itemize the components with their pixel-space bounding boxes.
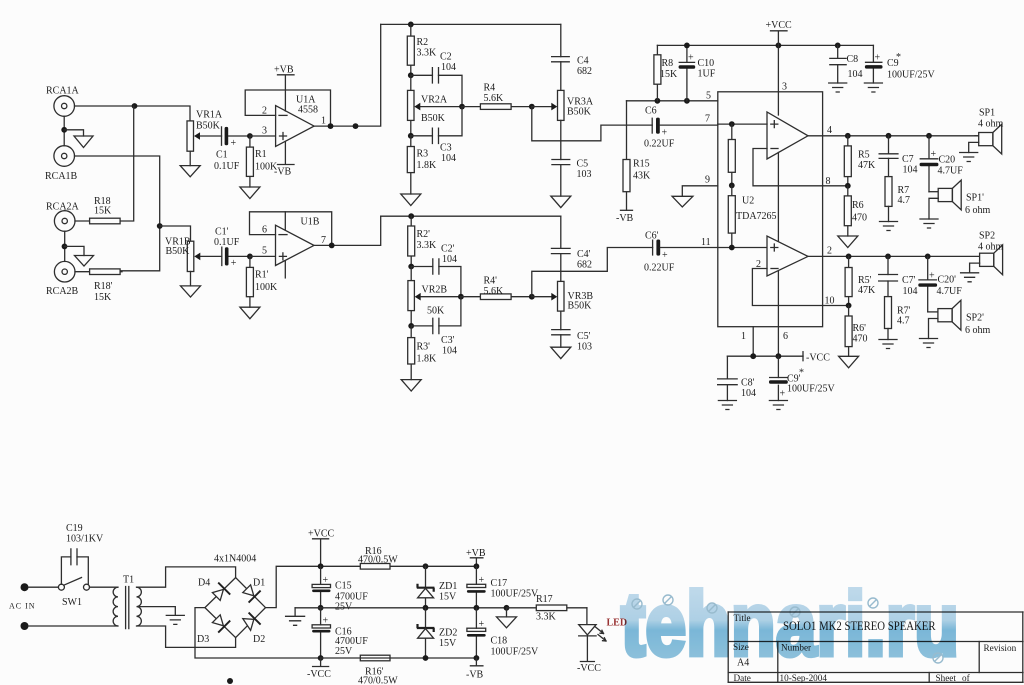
supply +VCC PSU [308, 529, 335, 567]
connector RCA2A [46, 202, 80, 232]
wire SP1' return [929, 198, 938, 219]
svg-text:R8: R8 [662, 58, 674, 69]
speaker SP2 [978, 231, 1004, 275]
svg-text:R3': R3' [417, 342, 431, 353]
speaker SP2' [938, 300, 991, 336]
svg-text:C8: C8 [847, 54, 859, 65]
svg-text:1.8K: 1.8K [417, 354, 438, 365]
node C3 top [408, 133, 414, 139]
svg-text:4.7: 4.7 [897, 316, 910, 327]
svg-text:5.6K: 5.6K [484, 93, 505, 104]
node -VCC C16 [318, 655, 324, 661]
svg-text:1: 1 [741, 331, 746, 342]
node pin10 R6' [846, 303, 852, 309]
supply -VCC PSU [307, 658, 331, 680]
svg-text:SP2': SP2' [966, 313, 984, 324]
svg-text:C1: C1 [216, 150, 228, 161]
ground R7 [880, 222, 898, 231]
ground C8 [829, 83, 847, 92]
svg-text:AC IN: AC IN [9, 602, 36, 611]
op-amp U2A [767, 112, 808, 159]
supply -VB PSU [466, 658, 484, 681]
svg-text:4558: 4558 [298, 105, 318, 116]
wire shield B to ground [65, 246, 85, 255]
svg-text:6 ohm: 6 ohm [965, 325, 991, 336]
capacitor C18 [467, 608, 539, 658]
svg-text:Revision: Revision [984, 643, 1017, 653]
svg-text:RCA2A: RCA2A [46, 202, 80, 213]
svg-text:tehnari.ru: tehnari.ru [621, 575, 959, 675]
potentiometer VR2A [408, 75, 463, 136]
svg-text:100UF/25V: 100UF/25V [491, 647, 540, 658]
ground R3' [401, 380, 421, 391]
svg-text:-VB: -VB [616, 213, 634, 224]
svg-text:4 ohm: 4 ohm [978, 242, 1004, 253]
op-amp U1B [276, 217, 320, 266]
node mid C16 [318, 605, 324, 611]
svg-text:3.3K: 3.3K [417, 48, 438, 59]
node +VB rail ZD1 [423, 563, 429, 569]
node +VCC C15 [318, 563, 324, 569]
svg-text:+: + [662, 250, 668, 261]
IC U2 TDA7265 box [718, 92, 823, 327]
resistor R4 [462, 83, 532, 110]
wire +VCC rail top [657, 44, 873, 46]
svg-text:SP2: SP2 [979, 231, 995, 242]
resistor R5' [845, 256, 876, 305]
potentiometer VR1A [187, 110, 223, 166]
LED [579, 608, 627, 641]
watermark tehnari.ru [621, 575, 959, 675]
svg-text:R18': R18' [94, 281, 113, 292]
node rail B R2' [408, 213, 414, 219]
svg-text:100UF/25V: 100UF/25V [787, 384, 836, 395]
node shield B [62, 244, 68, 250]
capacitor C8' [717, 356, 756, 400]
wire RCA2A shield to RCA2B shield [64, 231, 66, 261]
svg-text:R1: R1 [255, 149, 267, 160]
resistor internal lower [728, 185, 735, 247]
ground R3 [401, 194, 421, 206]
node pin8 R6 [845, 183, 851, 189]
resistor R7 [885, 177, 910, 222]
svg-text:R3: R3 [417, 149, 429, 160]
node pin4 R5 [845, 133, 851, 139]
node input B [157, 223, 163, 229]
svg-text:+VCC: +VCC [308, 529, 335, 540]
svg-text:104: 104 [903, 165, 918, 176]
svg-text:1UF: 1UF [698, 69, 716, 80]
node feedback A [328, 123, 334, 129]
node rail VCC stem [776, 43, 782, 49]
svg-text:4.7UF: 4.7UF [937, 286, 963, 297]
svg-text:*: * [799, 368, 804, 379]
svg-text:R2': R2' [417, 229, 431, 240]
svg-text:104: 104 [441, 62, 456, 73]
ground R6 [838, 236, 858, 248]
svg-text:15K: 15K [660, 69, 678, 80]
node pin11 [729, 245, 735, 251]
resistor R17 [507, 594, 587, 623]
svg-text:100K: 100K [255, 282, 278, 293]
svg-text:C5': C5' [577, 331, 591, 342]
node -VB rail ZD2 [423, 655, 429, 661]
svg-text:+: + [479, 575, 485, 586]
svg-text:B50K: B50K [567, 107, 592, 118]
connector RCA1B [45, 146, 78, 182]
svg-text:C2: C2 [440, 52, 452, 63]
svg-text:5.6K: 5.6K [484, 286, 505, 297]
resistor R15 [623, 101, 651, 211]
pin 7 wire [705, 114, 767, 125]
svg-text:682: 682 [577, 66, 592, 77]
svg-text:4x1N4004: 4x1N4004 [214, 554, 256, 565]
wire AC top [29, 586, 59, 588]
node -VB C18 [474, 655, 480, 661]
svg-text:VR1A: VR1A [196, 110, 223, 121]
svg-text:RCA1B: RCA1B [45, 171, 78, 182]
wire node to U1A pin3 [250, 135, 276, 137]
node C3' top [408, 323, 414, 329]
svg-text:0.22UF: 0.22UF [644, 139, 675, 150]
terminal AC live [21, 583, 29, 591]
svg-text:C4: C4 [577, 56, 589, 67]
svg-text:470: 470 [853, 334, 868, 345]
ground C5 [551, 196, 571, 208]
svg-text:R4: R4 [484, 83, 496, 94]
capacitor C7' [878, 256, 918, 297]
svg-text:4 ohm: 4 ohm [978, 119, 1004, 130]
wire secondary top to bridge [137, 567, 236, 587]
svg-text:B50K: B50K [196, 121, 221, 132]
svg-text:3: 3 [782, 82, 787, 93]
svg-text:VR2B: VR2B [422, 285, 448, 296]
svg-text:0.1UF: 0.1UF [214, 237, 240, 248]
resistor R1' [246, 256, 278, 307]
wire C20' to SP2' [928, 311, 938, 313]
svg-text:-VCC: -VCC [806, 353, 830, 364]
capacitor C4 [551, 24, 592, 90]
resistor R1 [246, 136, 278, 187]
svg-text:+: + [323, 575, 329, 586]
svg-text:D2: D2 [253, 634, 265, 645]
svg-text:+: + [931, 149, 937, 160]
ground center tap [166, 615, 184, 624]
supply -VCC IC [803, 352, 830, 364]
wire R4' to VR3B wiper [532, 296, 552, 298]
resistor R16 [358, 546, 398, 569]
svg-text:SP1': SP1' [966, 193, 984, 204]
resistor R7' [885, 297, 911, 340]
node output B [329, 243, 335, 249]
wire pin8 ext [823, 185, 848, 187]
svg-text:6: 6 [783, 331, 788, 342]
svg-text:R4': R4' [484, 276, 498, 287]
node rail A R2 [408, 22, 414, 28]
wire pin10 ext [823, 305, 849, 307]
svg-text:RCA1A: RCA1A [46, 86, 80, 97]
pin 1 stem [741, 327, 753, 357]
supply stub bottom U1B [284, 261, 286, 278]
op-amp U2B [756, 236, 808, 276]
ground input A [74, 136, 93, 148]
svg-text:C19: C19 [66, 523, 83, 534]
ground pin9 [672, 196, 693, 207]
transformer T1 [113, 575, 141, 629]
node C10 bottom [684, 98, 690, 104]
svg-text:ZD1: ZD1 [439, 581, 457, 592]
ground VR1B [181, 286, 201, 297]
wire R4' node to C6' (jog) [532, 248, 653, 297]
resistor R6 [844, 186, 867, 236]
svg-text:R6: R6 [852, 200, 864, 211]
supply stub top U1B [284, 212, 286, 230]
svg-text:6: 6 [262, 225, 267, 236]
svg-text:1.8K: 1.8K [417, 160, 438, 171]
svg-text:R17: R17 [536, 594, 553, 605]
svg-text:43K: 43K [633, 171, 651, 182]
wire U1A feedback loop [245, 90, 330, 126]
resistor R2 [407, 24, 437, 75]
svg-text:7: 7 [321, 235, 326, 246]
resistor R4' [461, 276, 532, 300]
svg-text:ZD2: ZD2 [439, 628, 457, 639]
svg-text:104: 104 [848, 69, 863, 80]
svg-text:of: of [962, 673, 971, 683]
wire R4 node to C6 (jog) [532, 107, 652, 141]
wire mid ground rail [295, 607, 506, 609]
wire bias to pin5 [627, 100, 718, 102]
capacitor C20' [918, 256, 962, 312]
svg-text:SW1: SW1 [62, 597, 82, 608]
wire SP2' return [929, 319, 938, 339]
node pin5 B [247, 254, 253, 260]
node rail C10 [684, 43, 690, 49]
svg-text:5: 5 [706, 91, 711, 102]
switch SW1 [58, 578, 89, 609]
svg-text:TDA7265: TDA7265 [736, 211, 777, 222]
node rail C8 [835, 43, 841, 49]
svg-text:-VCC: -VCC [307, 669, 331, 680]
potentiometer VR3A [551, 90, 594, 120]
resistor R2' [408, 216, 437, 266]
zener ZD2 [417, 608, 458, 658]
ground C9 [864, 83, 882, 92]
capacitor C3' [411, 297, 461, 357]
svg-text:682: 682 [577, 260, 592, 271]
svg-text:+: + [875, 52, 881, 63]
svg-text:4.7UF: 4.7UF [938, 166, 964, 177]
supply -VB R15 [616, 210, 634, 224]
pin 9 wire [682, 175, 718, 197]
capacitor C2 [411, 52, 462, 107]
svg-text:100UF/25V: 100UF/25V [491, 589, 540, 600]
resistor R5 [844, 136, 876, 186]
svg-text:R1': R1' [255, 270, 269, 281]
capacitor C16 [312, 608, 368, 658]
svg-text:47K: 47K [858, 285, 876, 296]
capacitor C6' [644, 231, 718, 274]
potentiometer VR1B [165, 237, 222, 286]
wire node to U1B pin5 [250, 255, 276, 257]
svg-text:7: 7 [705, 114, 710, 125]
svg-text:+: + [231, 258, 237, 269]
wire secondary bottom to bridge [137, 626, 236, 647]
svg-text:R15: R15 [633, 159, 650, 170]
speaker SP1 [975, 108, 1004, 155]
svg-text:2: 2 [827, 246, 832, 257]
svg-text:0.22UF: 0.22UF [644, 263, 675, 274]
resistor R18' [75, 269, 122, 303]
resistor R16' [358, 655, 398, 685]
svg-text:T1: T1 [123, 575, 134, 586]
capacitor C9' [769, 356, 836, 400]
ground R6' [839, 356, 859, 368]
svg-text:103: 103 [577, 342, 592, 353]
svg-text:C2': C2' [441, 244, 455, 255]
svg-text:6 ohm: 6 ohm [965, 205, 991, 216]
node R8 bottom [655, 98, 661, 104]
svg-text:0.1UF: 0.1UF [214, 161, 240, 172]
ground input B [75, 256, 94, 267]
svg-text:104: 104 [442, 346, 457, 357]
svg-text:C5: C5 [577, 159, 589, 170]
node R4' out [529, 294, 535, 300]
wire U1B output to rail B [314, 216, 381, 245]
node shield A [61, 127, 67, 133]
capacitor C15 [312, 566, 368, 612]
capacitor C6 [644, 106, 718, 150]
node pin4 C20 [926, 133, 932, 139]
title block frame [728, 612, 1023, 682]
svg-text:B50K: B50K [568, 301, 593, 312]
node R2 bottom [408, 72, 414, 78]
node mid C18 [474, 605, 480, 611]
svg-text:C7': C7' [902, 275, 916, 286]
wire RCA1A to VR1A [75, 106, 191, 121]
wire SP2 return [970, 263, 980, 273]
potentiometer VR3B [551, 281, 593, 311]
wire U2A feedback to pin 8 [753, 149, 823, 186]
capacitor C9 [865, 45, 936, 83]
resistor R18 [75, 106, 134, 224]
svg-text:C7: C7 [902, 154, 914, 165]
svg-text:1: 1 [321, 116, 326, 127]
svg-text:C3: C3 [440, 143, 452, 154]
svg-text:B50K: B50K [421, 113, 446, 124]
wire bridge positive to +VCC rail [266, 566, 477, 607]
connector RCA2B [46, 261, 79, 297]
diode D3 [197, 615, 230, 645]
capacitor C20 [920, 136, 964, 192]
node pin1 [750, 353, 756, 359]
svg-text:U2: U2 [742, 196, 754, 207]
stray dot bottom [227, 678, 233, 684]
svg-text:104: 104 [741, 388, 756, 399]
svg-text:SP1: SP1 [979, 108, 995, 119]
ground C9' [769, 401, 787, 410]
svg-text:C18: C18 [491, 636, 508, 647]
ground mid rail right [506, 608, 508, 617]
svg-text:-VB: -VB [466, 670, 484, 681]
svg-text:47K: 47K [858, 160, 876, 171]
wire U1A output to rail A [314, 24, 381, 126]
svg-text:2: 2 [262, 106, 267, 117]
ground VR1A [180, 166, 200, 177]
speaker SP1' [938, 180, 990, 216]
svg-text:D1: D1 [253, 578, 265, 589]
svg-text:D3: D3 [197, 634, 209, 645]
node input A [132, 103, 138, 109]
svg-text:103/1KV: 103/1KV [66, 534, 104, 545]
ground SP1 [960, 153, 978, 162]
ground C5' [551, 347, 571, 358]
connector RCA1A [46, 86, 80, 117]
terminal AC neutral [21, 622, 29, 630]
wire switch to T1 [90, 586, 119, 588]
diode D2 [243, 613, 265, 645]
pin 2 output wire [808, 246, 980, 257]
svg-text:B50K: B50K [166, 246, 191, 257]
node pin6 [776, 353, 782, 359]
node VR2B wiper [458, 294, 464, 300]
svg-text:470/0.5W: 470/0.5W [358, 555, 398, 566]
svg-text:104: 104 [903, 286, 918, 297]
svg-text:9: 9 [705, 175, 710, 186]
svg-text:+: + [323, 616, 329, 627]
svg-text:-VB: -VB [274, 167, 292, 178]
supply +VB PSU [466, 548, 486, 566]
svg-text:15K: 15K [94, 206, 112, 217]
svg-text:C20: C20 [939, 155, 956, 166]
resistor R8 [654, 45, 678, 100]
svg-text:C17: C17 [491, 578, 508, 589]
svg-text:3: 3 [262, 126, 267, 137]
supply +VCC top [766, 20, 793, 92]
ground C8' [718, 401, 736, 410]
svg-text:470/0.5W: 470/0.5W [358, 676, 398, 685]
wire internal supply chain [777, 153, 779, 242]
wire bottom supply [727, 355, 803, 357]
ground mid rail left [286, 608, 305, 626]
svg-text:C1': C1' [215, 227, 229, 238]
svg-text:C6': C6' [645, 231, 659, 242]
svg-text:+: + [479, 619, 485, 630]
supply -VCC LED [577, 636, 601, 674]
svg-text:50K: 50K [427, 306, 445, 317]
op-amp U1A [276, 95, 318, 147]
wire AC bottom to T1 [29, 625, 119, 627]
wire internal supply to pin6 [777, 272, 779, 357]
capacitor C8 [829, 45, 862, 83]
ground SP2 [961, 273, 979, 282]
node mid ZD2 [423, 605, 429, 611]
node pin2 C20' [925, 254, 931, 260]
node pin9 [729, 183, 735, 189]
ground R1 [240, 187, 260, 199]
capacitor C17 [467, 566, 539, 608]
svg-text:3.3K: 3.3K [417, 240, 438, 251]
wire secondary center tap [138, 607, 175, 616]
wire U2B feedback to pin 10 [752, 269, 822, 306]
ground SP1' [920, 219, 938, 228]
wire RCA1B to node B [75, 156, 160, 271]
node R4 out [529, 104, 535, 110]
resistor R6' [845, 306, 867, 357]
wire pin3 internal [777, 92, 779, 115]
wire shield A to ground [64, 130, 83, 136]
wire node B to VR1B [160, 226, 191, 241]
